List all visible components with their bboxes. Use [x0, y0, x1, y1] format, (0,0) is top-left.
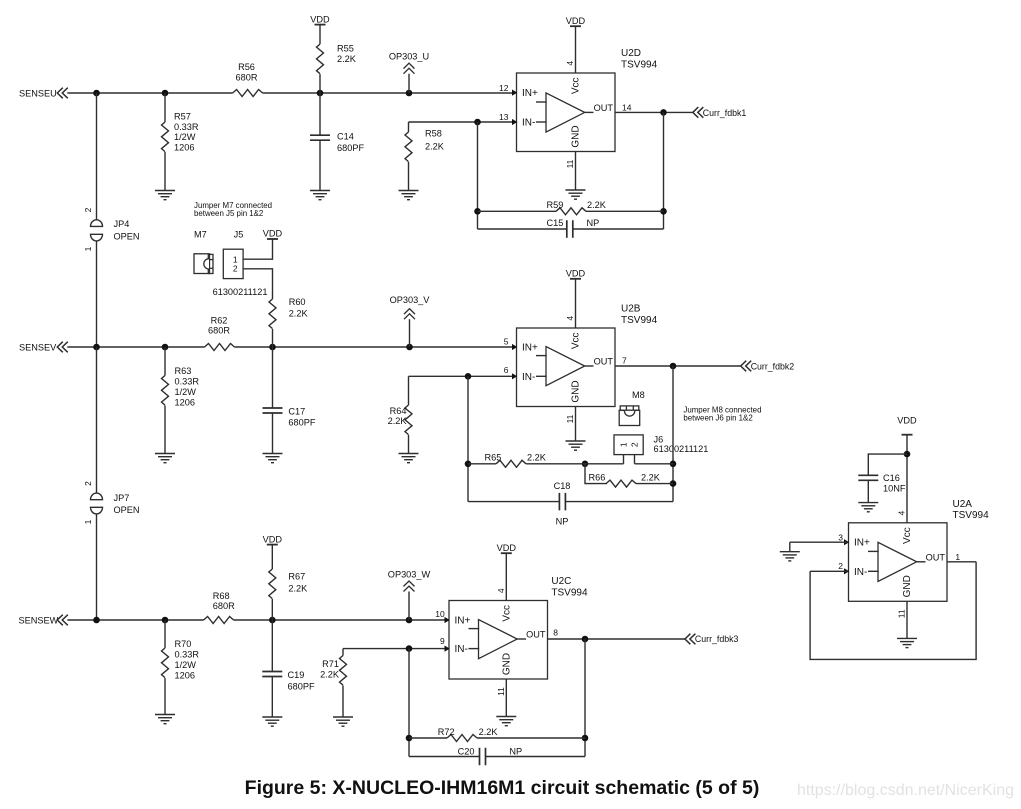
- resistor R66 2.2K: [585, 464, 673, 487]
- svg-text:https://blog.csdn.net/NicerKin: https://blog.csdn.net/NicerKing: [797, 782, 1014, 799]
- junction IN- line / feedback rail U2D: [474, 119, 481, 126]
- junction SENSEU / OP303_U: [406, 90, 413, 97]
- junction feedback rail / J6 pin 2 line: [670, 461, 677, 468]
- junction SENSEV / R60 / C17: [269, 344, 276, 351]
- svg-text:2.2K: 2.2K: [320, 670, 340, 680]
- junction R59 right: [660, 208, 667, 215]
- node OP303_V test point: [390, 295, 431, 347]
- svg-text:1206: 1206: [175, 670, 195, 680]
- wire U2A IN+ pin 3 to ground: [790, 541, 848, 543]
- junction IN- line / feedback rail U2C: [406, 645, 413, 652]
- wire U2D output to Curr_fdbk1 port: [615, 111, 693, 113]
- junction SENSEW / OP303_W: [406, 617, 413, 624]
- op-amp U2A IN- pin arrow: [844, 568, 849, 574]
- resistor R63 0.33R: [162, 347, 200, 454]
- svg-text:5: 5: [504, 336, 509, 346]
- svg-text:1: 1: [83, 519, 93, 524]
- svg-text:2.2K: 2.2K: [337, 54, 357, 64]
- svg-text:TSV994: TSV994: [621, 59, 658, 70]
- svg-text:11: 11: [565, 159, 575, 168]
- svg-text:OUT: OUT: [526, 630, 546, 640]
- wire JP7 rail from jumper down to SENSEW: [96, 514, 98, 620]
- svg-text:10: 10: [435, 609, 445, 619]
- junction SENSEW / R70: [162, 617, 169, 624]
- ground for C14: [310, 190, 330, 192]
- ground for R57: [155, 190, 175, 192]
- node Curr_fdbk2 port: [741, 361, 795, 372]
- junction feedback rail / R66: [670, 480, 677, 487]
- svg-text:4: 4: [496, 588, 506, 593]
- svg-text:C15: C15: [547, 218, 564, 228]
- node SENSEV port: [19, 342, 68, 353]
- junction R59 left: [474, 208, 481, 215]
- svg-text:1206: 1206: [174, 142, 194, 152]
- resistor R60 2.2K: [269, 297, 308, 347]
- svg-text:61300211121: 61300211121: [213, 287, 268, 297]
- wire feedback right rail U2B: [672, 366, 674, 502]
- ground for R71: [333, 716, 353, 718]
- svg-text:IN-: IN-: [854, 567, 867, 578]
- wire JP7 rail from SENSEV down to jumper: [96, 347, 98, 493]
- svg-text:IN-: IN-: [455, 644, 468, 655]
- svg-text:IN-: IN-: [522, 372, 535, 383]
- svg-text:3: 3: [838, 532, 843, 542]
- wire feedback left rail U2D: [477, 122, 479, 229]
- svg-text:NP: NP: [556, 516, 569, 526]
- svg-text:2.2K: 2.2K: [289, 308, 309, 318]
- svg-text:4: 4: [565, 316, 575, 321]
- svg-text:2: 2: [83, 207, 93, 212]
- svg-text:U2D: U2D: [621, 48, 641, 59]
- connector M8 jumper cap: [619, 390, 645, 426]
- op-amp U2B input stubs: [536, 355, 547, 357]
- junction U2C output / feedback: [582, 636, 589, 643]
- svg-text:2.2K: 2.2K: [479, 727, 499, 737]
- svg-text:OPEN: OPEN: [114, 231, 140, 241]
- svg-text:OUT: OUT: [594, 103, 614, 113]
- svg-text:1: 1: [83, 246, 93, 251]
- op-amp U2D box: [517, 73, 616, 152]
- junction R65 left: [465, 461, 472, 468]
- wire feedback right rail U2D: [663, 112, 665, 229]
- svg-text:14: 14: [622, 102, 632, 112]
- wire VDD to U2C Vcc pin 4: [505, 553, 507, 600]
- svg-text:J6: J6: [654, 435, 664, 445]
- svg-text:Figure 5: X-NUCLEO-IHM16M1 cir: Figure 5: X-NUCLEO-IHM16M1 circuit schem…: [245, 777, 760, 799]
- op-amp U2B IN- pin arrow: [512, 373, 517, 379]
- svg-text:9: 9: [440, 636, 445, 646]
- svg-text:C19: C19: [288, 670, 305, 680]
- svg-text:M8: M8: [632, 390, 645, 400]
- op-amp U2A IN+ pin arrow: [844, 539, 849, 545]
- svg-text:1: 1: [619, 442, 629, 447]
- svg-text:1/2W: 1/2W: [174, 132, 196, 142]
- svg-text:R71: R71: [322, 659, 339, 669]
- wire U2B IN- line from R64 corner to pin 6: [409, 375, 516, 377]
- node OP303_U test point: [389, 52, 429, 93]
- svg-text:1/2W: 1/2W: [175, 660, 197, 670]
- resistor R57 0.33R: [162, 93, 199, 191]
- svg-text:2: 2: [83, 481, 93, 486]
- resistor R68 680R: [204, 591, 236, 623]
- junction SENSEU / R57: [162, 90, 169, 97]
- junction R65 / R66 node: [582, 461, 589, 468]
- op-amp U2A OUT label and apex lead: [917, 561, 926, 563]
- svg-text:IN+: IN+: [522, 88, 538, 99]
- svg-text:R58: R58: [425, 129, 442, 139]
- junction SENSEV / R63: [162, 344, 169, 351]
- svg-text:OP303_V: OP303_V: [390, 295, 431, 305]
- wire U2C output to Curr_fdbk3 port: [548, 638, 685, 640]
- wire VDD to U2A Vcc pin 4: [906, 435, 908, 523]
- svg-text:680R: 680R: [213, 601, 235, 611]
- svg-text:0.33R: 0.33R: [174, 122, 199, 132]
- capacitor C20 NP feedback: [409, 747, 585, 766]
- svg-text:VDD: VDD: [897, 416, 917, 426]
- op-amp U2A box: [849, 523, 948, 602]
- ground for R64: [399, 453, 419, 455]
- junction SENSEU / JP4 rail: [93, 90, 100, 97]
- wire J5 pin 1 to VDD: [243, 239, 272, 259]
- op-amp U2A triangle: [878, 542, 917, 581]
- note jumper M8 text: [683, 405, 761, 422]
- ground for R63: [155, 453, 175, 455]
- svg-text:R60: R60: [289, 297, 306, 307]
- junction SENSEW / JP7 rail: [93, 617, 100, 624]
- wire U2C IN- line from R71 corner to pin 9: [343, 648, 448, 650]
- op-amp U2C input stubs: [469, 628, 480, 630]
- op-amp U2D IN- pin arrow: [512, 119, 517, 125]
- svg-text:SENSEV: SENSEV: [19, 342, 57, 352]
- ground for R58: [399, 190, 419, 192]
- wire U2A unity-gain feedback loop: [810, 562, 976, 660]
- resistor R65 2.2K: [468, 453, 624, 468]
- wire SENSEW main line left of R68: [67, 619, 203, 621]
- capacitor C15 NP feedback: [478, 218, 664, 238]
- op-amp U2D OUT label and apex lead: [585, 111, 594, 113]
- resistor R56 680R: [233, 62, 263, 97]
- svg-text:R62: R62: [211, 315, 228, 325]
- ground for U2A GND pin: [897, 637, 917, 639]
- resistor R67 2.2K: [269, 545, 308, 620]
- svg-text:TSV994: TSV994: [551, 587, 588, 598]
- svg-text:4: 4: [897, 510, 907, 515]
- ground for U2B GND pin: [566, 440, 586, 442]
- ground for C16: [858, 502, 878, 504]
- junction R72 right: [582, 735, 589, 742]
- svg-text:VDD: VDD: [566, 16, 586, 26]
- resistor R59 2.2K feedback: [478, 200, 664, 215]
- wire J5 pin 2 to R60: [243, 269, 272, 299]
- svg-text:13: 13: [499, 112, 509, 122]
- svg-text:R57: R57: [174, 112, 191, 122]
- svg-text:C18: C18: [554, 481, 571, 491]
- svg-text:VDD: VDD: [263, 534, 283, 544]
- svg-text:NP: NP: [509, 747, 522, 757]
- ground for U2D GND pin: [566, 189, 586, 191]
- svg-text:C20: C20: [458, 747, 475, 757]
- svg-text:R72: R72: [438, 727, 455, 737]
- svg-text:JP7: JP7: [114, 493, 130, 503]
- capacitor C18 NP feedback: [468, 481, 673, 527]
- svg-text:Vcc: Vcc: [501, 605, 512, 622]
- svg-text:OPEN: OPEN: [114, 505, 140, 515]
- resistor R72 2.2K feedback: [409, 727, 585, 742]
- svg-text:1/2W: 1/2W: [175, 387, 197, 397]
- op-amp U2C GND pin wire: [505, 679, 507, 717]
- resistor R62 680R: [205, 315, 235, 350]
- svg-text:U2C: U2C: [551, 576, 571, 587]
- svg-text:SENSEW: SENSEW: [19, 615, 59, 625]
- svg-text:1: 1: [955, 552, 960, 562]
- op-amp U2D input stubs: [536, 101, 547, 103]
- svg-text:11: 11: [565, 414, 575, 423]
- ground for C19: [262, 716, 282, 718]
- svg-text:TSV994: TSV994: [953, 510, 990, 521]
- svg-text:0.33R: 0.33R: [175, 376, 200, 386]
- svg-text:IN+: IN+: [854, 538, 870, 549]
- svg-text:NP: NP: [587, 218, 600, 228]
- op-amp U2B OUT label and apex lead: [585, 365, 594, 367]
- svg-text:J5: J5: [234, 230, 244, 240]
- svg-text:R68: R68: [213, 591, 230, 601]
- svg-text:680R: 680R: [208, 326, 230, 336]
- jumper JP4 OPEN: [83, 207, 140, 251]
- wire U2D IN- line from R58 corner to pin 13: [409, 121, 516, 123]
- resistor R70 0.33R: [162, 620, 200, 715]
- svg-text:R66: R66: [589, 473, 606, 483]
- node Curr_fdbk3 port: [685, 634, 739, 645]
- svg-text:2.2K: 2.2K: [641, 473, 661, 483]
- svg-text:R70: R70: [175, 639, 192, 649]
- svg-text:R59: R59: [547, 200, 564, 210]
- resistor R71 2.2K: [320, 649, 346, 717]
- node SENSEU port: [19, 88, 68, 99]
- svg-text:OUT: OUT: [926, 552, 946, 562]
- svg-text:M7: M7: [194, 230, 207, 240]
- svg-text:2.2K: 2.2K: [425, 141, 445, 151]
- wire JP4 rail from SENSEU down to jumper: [96, 93, 98, 220]
- svg-text:2.2K: 2.2K: [288, 584, 308, 594]
- svg-text:2.2K: 2.2K: [587, 200, 607, 210]
- wire VDD to U2D Vcc pin 4: [575, 26, 577, 73]
- capacitor C16 10NF decoupling: [858, 454, 907, 503]
- connector J6 61300211121: [614, 435, 708, 455]
- svg-text:OP303_W: OP303_W: [388, 570, 431, 580]
- svg-text:R64: R64: [390, 406, 407, 416]
- wire SENSEU main line right of R56 to U2D pin 12: [263, 92, 516, 94]
- op-amp U2D triangle: [546, 93, 585, 132]
- op-amp U2A input stubs: [868, 550, 879, 552]
- svg-text:680R: 680R: [236, 72, 258, 82]
- op-amp U2A GND pin wire: [906, 601, 908, 638]
- wire feedback left rail U2C: [408, 649, 410, 757]
- svg-text:2: 2: [630, 442, 640, 447]
- svg-text:GND: GND: [571, 380, 582, 402]
- svg-text:IN+: IN+: [455, 615, 471, 626]
- wire SENSEW main line right of R68 to U2C pin 10: [234, 619, 449, 621]
- svg-text:Vcc: Vcc: [571, 332, 582, 349]
- wire U2A output pin 1: [947, 561, 976, 563]
- wire feedback right rail U2C: [584, 639, 586, 757]
- svg-text:VDD: VDD: [263, 229, 283, 239]
- capacitor C17 680PF: [263, 347, 316, 454]
- wire ground stub for pin 3: [789, 542, 791, 552]
- svg-text:2.2K: 2.2K: [388, 416, 408, 426]
- svg-text:R67: R67: [288, 572, 305, 582]
- svg-text:OP303_U: OP303_U: [389, 52, 429, 62]
- svg-text:Curr_fdbk1: Curr_fdbk1: [703, 108, 747, 118]
- svg-text:6: 6: [504, 365, 509, 375]
- svg-text:4: 4: [565, 61, 575, 66]
- svg-text:2: 2: [233, 263, 238, 273]
- svg-text:JP4: JP4: [114, 219, 130, 229]
- junction U2B output / feedback: [670, 363, 677, 370]
- node SENSEW port: [19, 615, 68, 626]
- op-amp U2B triangle: [546, 347, 585, 386]
- op-amp U2C IN+ pin arrow: [445, 617, 450, 623]
- svg-text:U2A: U2A: [953, 499, 973, 510]
- ground for U2C GND pin: [496, 716, 516, 718]
- wire U2A IN- pin 2 from feedback: [810, 570, 848, 572]
- op-amp U2C triangle: [479, 620, 518, 659]
- svg-text:10NF: 10NF: [883, 484, 906, 494]
- op-amp U2C box: [449, 601, 548, 680]
- svg-text:C17: C17: [288, 406, 305, 416]
- wire J6 pin 2 lead: [634, 455, 636, 464]
- svg-text:IN-: IN-: [522, 118, 535, 129]
- svg-text:Curr_fdbk2: Curr_fdbk2: [751, 361, 795, 371]
- svg-text:GND: GND: [902, 575, 913, 597]
- svg-text:Vcc: Vcc: [571, 77, 582, 94]
- resistor R58 2.2K: [405, 122, 445, 191]
- svg-text:Curr_fdbk3: Curr_fdbk3: [695, 634, 739, 644]
- svg-text:8: 8: [553, 627, 558, 637]
- wire J6 pin 2 to feedback rail: [635, 463, 674, 465]
- wire U2B output to Curr_fdbk2 port: [615, 365, 741, 367]
- junction IN- line / feedback rail U2B: [465, 373, 472, 380]
- junction R72 left: [406, 735, 413, 742]
- svg-text:0.33R: 0.33R: [175, 649, 200, 659]
- svg-text:2: 2: [838, 561, 843, 571]
- svg-text:VDD: VDD: [566, 269, 586, 279]
- op-amp U2B box: [517, 328, 616, 407]
- connector J5 61300211121: [213, 230, 268, 298]
- svg-text:2.2K: 2.2K: [527, 453, 547, 463]
- svg-text:C14: C14: [337, 132, 354, 142]
- op-amp U2C OUT label and apex lead: [517, 638, 526, 640]
- op-amp U2B IN+ pin arrow: [512, 344, 517, 350]
- svg-text:61300211121: 61300211121: [654, 444, 709, 454]
- svg-text:SENSEU: SENSEU: [19, 88, 57, 98]
- wire SENSEV main line right of R62 to U2B pin 5: [235, 346, 516, 348]
- wire J6 pin 1 lead: [623, 455, 625, 464]
- wire SENSEU main line left of R56: [67, 92, 232, 94]
- svg-text:IN+: IN+: [522, 342, 538, 353]
- svg-text:11: 11: [897, 609, 907, 618]
- wire VDD to U2B Vcc pin 4: [575, 279, 577, 328]
- svg-text:U2B: U2B: [621, 304, 641, 315]
- note jumper M7 text: [194, 201, 272, 218]
- op-amp U2D GND pin wire: [575, 152, 577, 191]
- svg-text:between J5 pin 1&2: between J5 pin 1&2: [194, 209, 263, 218]
- ground for U2A IN+ input: [780, 551, 800, 553]
- svg-text:VDD: VDD: [310, 14, 330, 24]
- wire feedback left rail U2B: [467, 376, 469, 501]
- junction SENSEW / R67 / C19: [269, 617, 276, 624]
- node Curr_fdbk1 port: [693, 107, 747, 118]
- resistor R64 2.2K: [388, 376, 412, 453]
- resistor R55 2.2K: [317, 25, 357, 93]
- junction SENSEV / OP303_V: [406, 344, 413, 351]
- capacitor C19 680PF: [262, 620, 315, 717]
- svg-text:12: 12: [499, 83, 509, 93]
- svg-text:1206: 1206: [175, 397, 195, 407]
- svg-text:680PF: 680PF: [288, 418, 315, 428]
- op-amp U2B GND pin wire: [575, 407, 577, 442]
- junction VDD / C16 branch: [904, 451, 911, 458]
- junction SENSEU / R55 / C14: [317, 90, 324, 97]
- wire JP4 rail from jumper down to SENSEV: [96, 241, 98, 347]
- node OP303_W test point: [388, 570, 431, 620]
- capacitor C14 680PF: [310, 93, 364, 191]
- svg-text:GND: GND: [501, 653, 512, 675]
- junction SENSEV / JP rail: [93, 344, 100, 351]
- svg-text:Vcc: Vcc: [902, 527, 913, 544]
- svg-text:between J6 pin 1&2: between J6 pin 1&2: [683, 413, 752, 422]
- svg-text:680PF: 680PF: [337, 143, 364, 153]
- svg-text:GND: GND: [571, 125, 582, 147]
- svg-text:VDD: VDD: [497, 543, 517, 553]
- svg-text:R55: R55: [337, 44, 354, 54]
- connector M7 jumper cap: [194, 230, 213, 274]
- jumper JP7 OPEN: [83, 481, 140, 525]
- ground for R70: [155, 714, 175, 716]
- wire SENSEV main line left of R62: [67, 346, 204, 348]
- svg-text:R63: R63: [175, 366, 192, 376]
- svg-text:11: 11: [496, 687, 506, 696]
- svg-text:C16: C16: [883, 473, 900, 483]
- op-amp U2D IN+ pin arrow: [512, 90, 517, 96]
- svg-text:680PF: 680PF: [288, 682, 315, 692]
- junction U2D output / feedback: [660, 109, 667, 116]
- svg-text:OUT: OUT: [594, 357, 614, 367]
- op-amp U2C IN- pin arrow: [445, 646, 450, 652]
- svg-text:TSV994: TSV994: [621, 315, 658, 326]
- svg-text:R65: R65: [485, 453, 502, 463]
- ground for C17: [263, 453, 283, 455]
- svg-text:7: 7: [622, 356, 627, 366]
- svg-text:R56: R56: [238, 62, 255, 72]
